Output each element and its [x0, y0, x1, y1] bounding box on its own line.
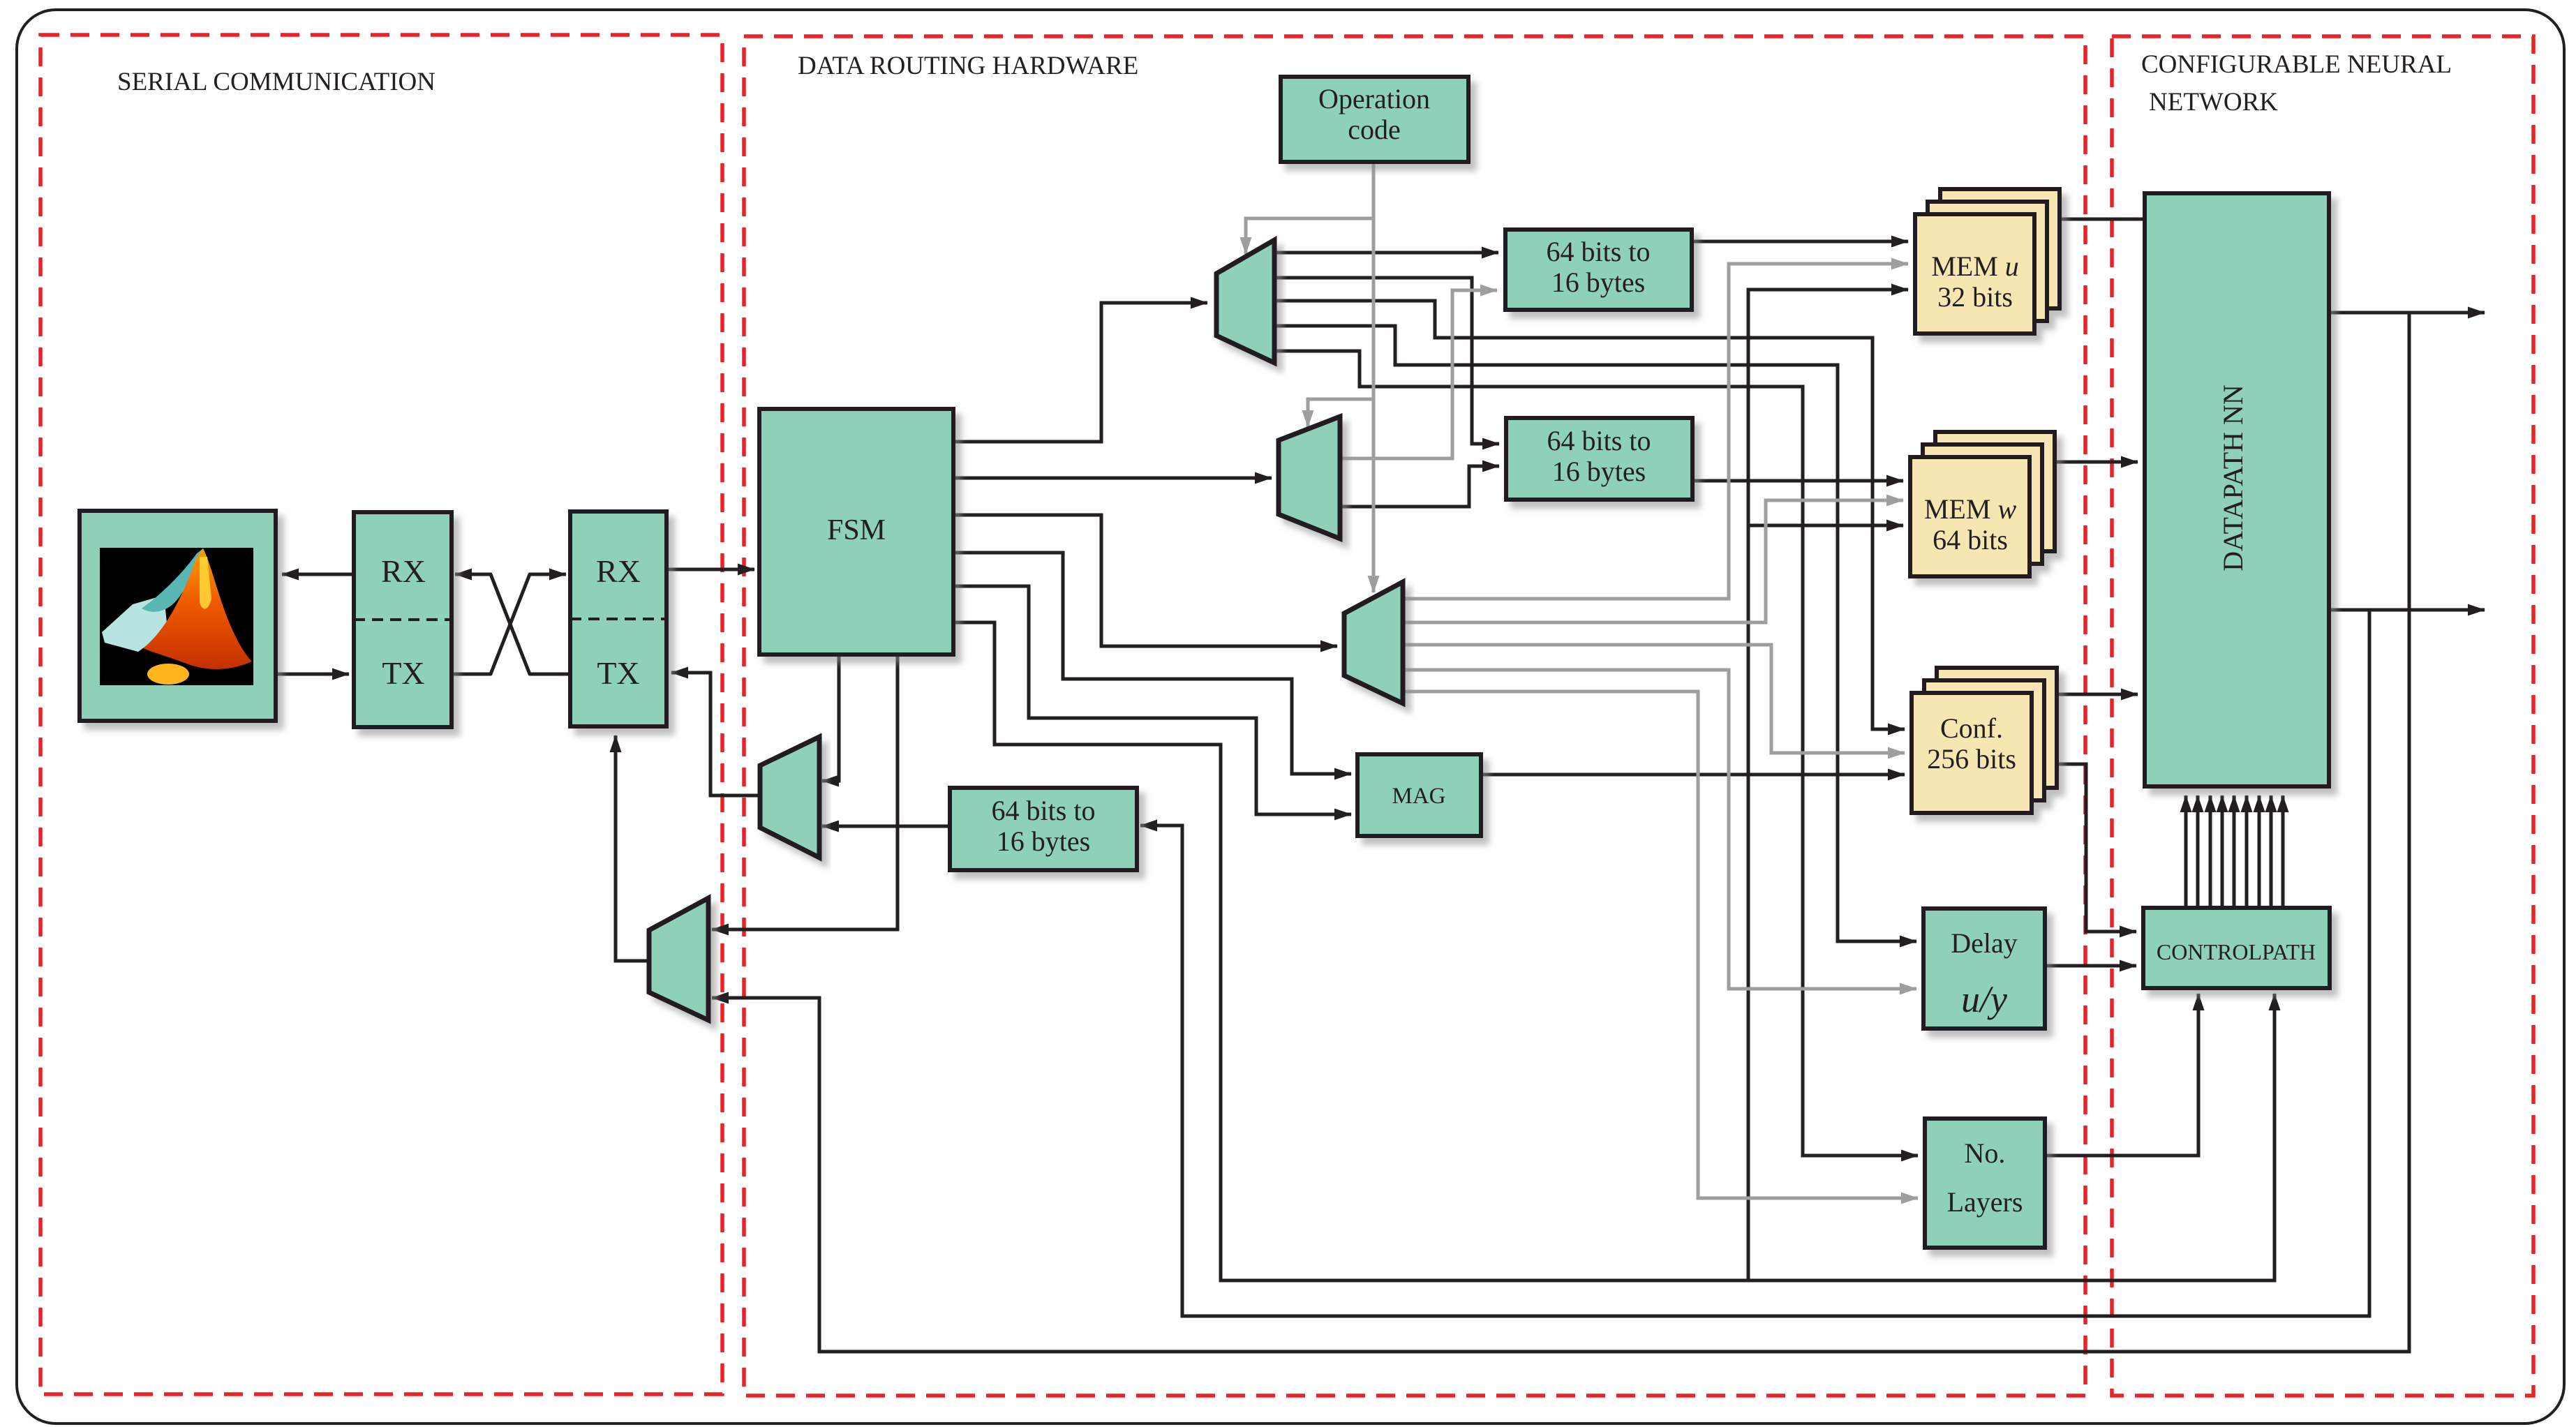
svg-text:FSM: FSM [827, 514, 886, 546]
svg-text:MEM w: MEM w [1924, 493, 2017, 525]
svg-text:No.: No. [1965, 1137, 2006, 1169]
svg-text:CONFIGURABLE NEURAL: CONFIGURABLE NEURAL [2141, 50, 2452, 79]
wire MAG output to Conf input 3 [1481, 773, 1905, 777]
svg-text:CONTROLPATH: CONTROLPATH [2157, 939, 2316, 964]
wire FSM output 2 to mux M5 [953, 477, 1272, 480]
region SERIAL COMMUNICATION (red dashed box) [40, 35, 722, 1394]
svg-text:256 bits: 256 bits [1927, 743, 2016, 775]
wire control bus arrow 6 [2245, 795, 2249, 908]
mux M4 (top) [1216, 240, 1274, 363]
mux M5 (middle) [1279, 417, 1340, 539]
MEM u memory stack [1915, 189, 2060, 334]
wire No-Layers output to CONTROLPATH bottom [2045, 994, 2198, 1156]
64 bits to 16 bytes box2 (middle) [1506, 418, 1692, 500]
wire mux M3 gray output 2 to MEM w input 2 [1403, 500, 1903, 622]
wire FSM bottom 2 to mux M2 input 1 [712, 655, 898, 929]
svg-text:TX: TX [382, 655, 424, 691]
wire control bus arrow 4 [2221, 795, 2224, 908]
wire FSM output 3 to mux M3 [953, 515, 1337, 646]
wire mux M4 output 4 to Delay input 1 [1274, 326, 1916, 941]
FSM block [759, 409, 953, 655]
CONTROLPATH block [2143, 908, 2330, 988]
MATLAB host PC block [80, 511, 276, 721]
svg-text:NETWORK: NETWORK [2149, 88, 2278, 117]
region DATA ROUTING HARDWARE (red dashed box) [744, 36, 2085, 1396]
Delay u/y block [1923, 909, 2045, 1029]
MEM w memory stack [1910, 432, 2055, 576]
wire crossover RX1 arrowhead [455, 573, 475, 576]
wire 64-bits box3 output to mux M1 input 2 [822, 825, 950, 828]
wire MEM w output to DATAPATH NN [2056, 461, 2138, 464]
wire mux M3 gray output 3 to Conf input 2 [1403, 645, 1905, 753]
svg-text:MEM u: MEM u [1931, 251, 2019, 282]
svg-text:u/y: u/y [1961, 978, 2007, 1020]
wire RX2 to FSM [667, 568, 754, 571]
svg-text:Operation: Operation [1318, 83, 1430, 114]
wire CONTROLPATH to DATAPATH control bus arrow 1 [2184, 795, 2188, 908]
wire control bus arrow 8 [2270, 795, 2273, 908]
mux M3 (demux to memories) [1344, 582, 1403, 703]
svg-text:SERIAL COMMUNICATION: SERIAL COMMUNICATION [117, 68, 435, 96]
wire control bus arrow 3 [2209, 795, 2212, 908]
wire DATAPATH NN output 1 [2329, 311, 2485, 315]
svg-text:Delay: Delay [1951, 927, 2018, 959]
wire Operation-code select vertical to mux M3 [1372, 162, 1376, 592]
wire mux M5 black output to 64-bits box2 input 2 [1340, 466, 1499, 507]
svg-text:64 bits to: 64 bits to [1547, 236, 1651, 267]
wire mux M3 gray output 4 to Delay input 2 [1403, 670, 1916, 989]
wire RX1 to MATLAB block [282, 573, 354, 576]
wire select branch to mux M4 [1246, 218, 1373, 254]
svg-text:64 bits to: 64 bits to [1547, 425, 1651, 456]
wire mux M5 gray output to 64-bits box1 input 2 [1340, 290, 1497, 458]
wire select branch to mux M5 [1308, 399, 1373, 427]
svg-text:32 bits: 32 bits [1937, 281, 2013, 313]
DATAPATH NN block [2145, 193, 2329, 786]
wire FSM output 4 to MAG input 1 [953, 553, 1351, 774]
wire control bus arrow 2 [2196, 795, 2200, 908]
wire FSM output 5 to MAG input 2 [953, 586, 1351, 814]
MAG block [1357, 754, 1481, 836]
svg-text:16 bytes: 16 bytes [997, 825, 1090, 857]
UART RX/TX block 2 (FPGA side) [570, 511, 667, 726]
wire mux M3 gray output 5 to No-Layers input 2 [1403, 692, 1918, 1198]
wire branch to MEM w input 3 [1748, 524, 1903, 528]
wire control bus arrow 9 [2281, 795, 2285, 908]
wire DATAPATH NN output 2 [2329, 608, 2485, 612]
wire mux M4 output 1 to 64-bits box1 [1274, 251, 1498, 255]
wire mux M2 output to TX2 bottom [616, 735, 649, 961]
wire 64-bits box1 output to MEM u input 1 [1692, 240, 1908, 244]
wire mux M3 gray output 1 to MEM u input 2 [1403, 264, 1908, 599]
svg-text:DATAPATH NN: DATAPATH NN [2217, 384, 2249, 571]
svg-text:64 bits to: 64 bits to [992, 795, 1096, 826]
UART RX/TX block 1 (PC side) [354, 512, 452, 727]
No. Layers block [1925, 1119, 2045, 1248]
wire Conf output 2 to CONTROLPATH input 1 [2032, 764, 2136, 932]
wire MATLAB block to TX1 [276, 673, 349, 676]
Operation code block [1281, 77, 1468, 162]
svg-text:RX: RX [381, 553, 426, 589]
wire mux M4 output 5 to No-Layers input 1 [1274, 351, 1918, 1156]
wire mux M1 output to TX2 right side [671, 673, 760, 795]
wire Conf output 1 to DATAPATH NN [2057, 693, 2138, 696]
mux M1 (feeds TX2) [760, 737, 819, 858]
wire crossover lower-left to upper-right into RX2 [452, 574, 566, 674]
wire Delay output to CONTROLPATH input 2 [2045, 964, 2136, 968]
region CONFIGURABLE NEURAL NETWORK (red dashed box) [2112, 36, 2533, 1396]
wire FSM bottom 1 to mux M1 input 1 [822, 655, 839, 781]
wire DATAPATH output 1 loopback to mux M2 input 2 [712, 313, 2409, 1352]
wire crossover upper-left to lower-right [459, 574, 570, 674]
64 bits to 16 bytes box1 (top) [1505, 230, 1692, 310]
svg-text:Layers: Layers [1947, 1186, 2023, 1218]
svg-text:Conf.: Conf. [1940, 712, 2003, 744]
svg-text:DATA ROUTING HARDWARE: DATA ROUTING HARDWARE [798, 52, 1138, 80]
wire FSM output 1 to mux M4 [953, 303, 1207, 442]
wire branch to MEM u input 3 [1748, 290, 1908, 1280]
64 bits to 16 bytes box3 (lower left) [950, 788, 1137, 870]
svg-text:MAG: MAG [1392, 784, 1445, 809]
svg-text:16 bytes: 16 bytes [1551, 267, 1645, 298]
wire control bus arrow 7 [2258, 795, 2261, 908]
wire control bus arrow 5 [2233, 795, 2236, 908]
wire DATAPATH output 2 loopback to 64-bits box3 [1140, 610, 2369, 1316]
svg-text:64 bits: 64 bits [1933, 524, 2008, 555]
wire mux M4 output 2 to 64-bits box2 input 1 [1274, 278, 1499, 444]
Conf. 256 bits stack [1912, 668, 2057, 813]
wire mux M4 output 3 to Conf input 1 [1274, 301, 1905, 729]
wire MEM u output to DATAPATH NN [2060, 218, 2145, 221]
mux M2 (lower, feeds TX2 bottom) [649, 898, 708, 1020]
wire 64-bits box2 output to MEM w input 1 [1692, 479, 1903, 483]
svg-text:TX: TX [597, 655, 639, 691]
svg-text:code: code [1348, 114, 1401, 145]
wire FSM output 6 long net to CONTROLPATH bottom [953, 622, 2275, 1280]
svg-text:RX: RX [596, 553, 641, 589]
svg-text:16 bytes: 16 bytes [1552, 456, 1646, 487]
